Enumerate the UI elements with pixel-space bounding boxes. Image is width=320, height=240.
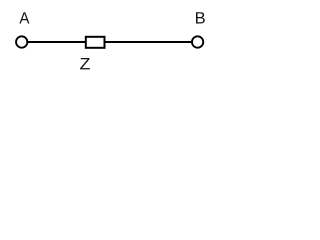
impedance value label Z	[80, 58, 90, 69]
wire from impedance Z to terminal B	[105, 41, 193, 43]
impedance Z box	[86, 37, 105, 48]
terminal A	[16, 36, 27, 47]
node A label	[19, 12, 29, 23]
node B label	[196, 12, 205, 23]
wire from terminal A to impedance Z	[28, 41, 86, 43]
terminal B	[192, 36, 203, 47]
